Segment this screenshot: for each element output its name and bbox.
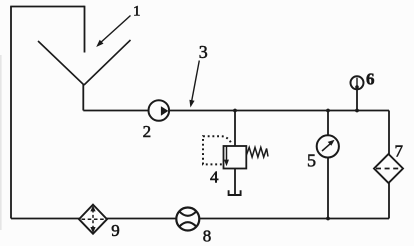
pressure gauge 5 (317, 135, 339, 157)
wire: branch down to relief valve 4 (234, 111, 236, 147)
svg-text:4: 4 (210, 168, 219, 187)
node: junction main line to relief valve (233, 109, 237, 113)
tank symbol (relief valve drain) (229, 190, 241, 195)
relief valve 4 spring (246, 147, 268, 157)
wire: right vertical line down to filter 7 (388, 111, 390, 155)
svg-text:5: 5 (307, 150, 316, 170)
wire: gauge branch vertical (327, 111, 329, 219)
svg-text:6: 6 (366, 70, 375, 89)
node: junction main line to thermometer 6 (355, 109, 359, 113)
svg-text:1: 1 (133, 4, 141, 20)
strainer funnel 1 (38, 40, 131, 85)
wire: relief valve outlet to tank (234, 169, 236, 196)
svg-text:8: 8 (203, 227, 212, 246)
node: junction main line to gauge 5 branch (326, 109, 330, 113)
wire: bottom return line (11, 218, 389, 220)
wire: stub up to thermometer 6 (356, 89, 358, 111)
svg-text:3: 3 (199, 42, 208, 62)
svg-text:9: 9 (111, 221, 120, 240)
relief valve 4 internal flow arrow (224, 147, 229, 167)
wire: funnel outlet (82, 84, 84, 111)
svg-text:7: 7 (395, 142, 404, 161)
filter 7 (374, 154, 403, 183)
thermometer 6 (351, 76, 364, 89)
wire: main pressure line (83, 110, 389, 112)
wire: top horizontal line (10, 6, 84, 8)
relief valve 4 body (224, 146, 247, 169)
wire: left vertical return line (10, 7, 12, 219)
wire: filter 7 down to bottom line (388, 183, 390, 219)
flow meter 8 (176, 208, 199, 231)
svg-text:2: 2 (143, 122, 152, 141)
wire: down pipe into funnel (84, 6, 86, 53)
relief valve 4 pilot line (dashed) (203, 136, 231, 164)
pump 2 (149, 100, 170, 121)
leader arrow to label 1 (96, 16, 130, 48)
node: junction bottom line with gauge branch (326, 217, 330, 221)
leader arrow to label 3 (189, 61, 199, 108)
cooler 9 (79, 205, 107, 234)
